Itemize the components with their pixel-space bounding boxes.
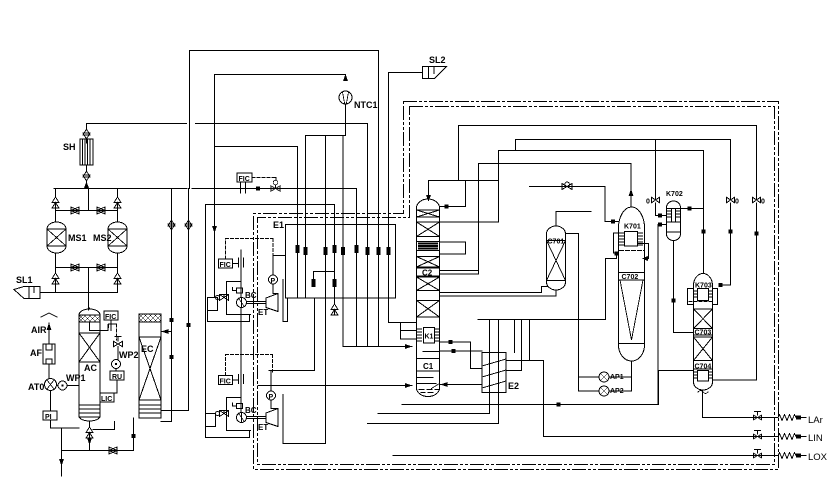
wire exp1 loop (208, 303, 250, 322)
svg-text:0: 0 (761, 199, 765, 206)
gauge P1 circle (269, 275, 278, 284)
pump AP2 (599, 386, 609, 396)
wire C701 right outlet to pumps (566, 234, 579, 392)
wire E2 to column y384.5 (441, 384, 483, 386)
valve cross top right (97, 207, 105, 214)
arrow EC feed (162, 329, 169, 334)
svg-text:LIC: LIC (101, 396, 112, 403)
C702 label band (619, 273, 645, 281)
junction sqs K1 outlets (449, 340, 453, 344)
svg-text:BC: BC (245, 406, 257, 415)
column hatch band (417, 242, 440, 251)
C704 X band (694, 337, 713, 361)
silencer SL1 (14, 287, 40, 299)
arrow into column y347 (405, 344, 412, 349)
svg-text:C1: C1 (423, 362, 434, 371)
wire top right header y150.5 (499, 150, 704, 152)
wire exp1 inlet vertical x241 (240, 250, 242, 298)
arrow C702 vapor up (629, 189, 634, 196)
valve WP2 control (114, 337, 123, 347)
shaft exp2 (247, 417, 267, 419)
compressor BC2 circle (237, 413, 247, 423)
wire AT0 down to PI (51, 391, 80, 429)
arrow AC drain down (87, 438, 92, 445)
wire E1 inner step (314, 272, 335, 280)
heat exchanger E1 (286, 225, 396, 299)
arrow into column top (426, 195, 431, 202)
svg-text:SH: SH (63, 142, 76, 152)
wire column top feed (429, 181, 498, 196)
valve on x171 (168, 216, 175, 234)
svg-text:K702: K702 (666, 191, 683, 198)
valve LOX (754, 450, 762, 458)
C704 bottom box (698, 371, 709, 382)
wire C2 outlet pair (441, 271, 479, 275)
svg-text:MS2: MS2 (93, 233, 112, 243)
wire E1 line x389 SL2 vent (389, 73, 417, 323)
instrument FIC exp1 (219, 259, 233, 268)
wire E1 line x325 (325, 136, 327, 444)
junction sq x171 (170, 318, 174, 322)
valve MS2 top (114, 197, 121, 208)
valve X0 b (713, 126, 761, 381)
valve MS2 bottom (114, 273, 121, 288)
wire vertical x171 (171, 189, 173, 422)
svg-text:MS1: MS1 (68, 233, 87, 243)
wire FIC dashed drop (111, 320, 117, 340)
wire MS bottom cross y267 (56, 253, 118, 310)
pump WP1 (58, 381, 67, 390)
wire SH stubs (86, 124, 88, 189)
vessel C702 with condenser K701 (619, 207, 645, 361)
column band X2 (417, 222, 440, 237)
wire LAr from C704 bottom (703, 390, 779, 418)
valve K701 feed (562, 182, 572, 190)
wire E1 line x356 (356, 189, 358, 347)
junction sq x133 (132, 434, 136, 438)
AC bottom trays (79, 405, 100, 417)
svg-text:SL2: SL2 (429, 55, 446, 65)
wire exp1 inlet pipe (283, 280, 288, 322)
valve MS1 top (52, 197, 59, 208)
svg-text:K701: K701 (624, 224, 641, 231)
wire exp1 frame (227, 282, 251, 315)
wire vertical x189 (189, 51, 191, 189)
wire MS left drop x55 (55, 189, 57, 198)
wire K702 bottom stem x673 (674, 241, 694, 333)
valve on x188 (185, 216, 192, 234)
vessel MS1 (47, 222, 66, 253)
wire FIC1 dashed control (226, 239, 274, 260)
silencer SL2 (423, 67, 447, 79)
arrow into column y385 (405, 383, 412, 388)
valve below E1 on x334 (331, 304, 338, 315)
wire argon feed y293 (441, 287, 557, 297)
compressor BC1 circle (237, 298, 247, 308)
lug K701 left (614, 233, 619, 259)
junction sq K702 inlet1 (658, 214, 662, 218)
svg-text:C2: C2 (422, 269, 433, 278)
valve SH top (83, 125, 90, 143)
wire FIC dashes (252, 178, 276, 183)
valve 0X k702 (652, 140, 667, 216)
wire column top outlet y206 (441, 181, 466, 207)
gauge P2 circle (267, 391, 276, 400)
wire AC bottom out (89, 422, 91, 427)
wire y385 inlet to column (258, 385, 412, 387)
valve MS1 bottom (52, 273, 59, 288)
column sump diagonal (432, 384, 440, 389)
valve X0 a (722, 140, 735, 286)
valve cross bottom right (97, 264, 105, 271)
arrow up below SH (84, 182, 89, 189)
EC bottom bands (139, 405, 161, 413)
wire exp2 inlet vertical x241 (240, 308, 242, 413)
wire NTC1 line y74 (215, 74, 346, 76)
valve cross top left (71, 207, 79, 214)
wire exp2 outlet pipe (283, 395, 326, 444)
wire K1 right outlets (441, 342, 483, 369)
junction sq x171 low (170, 355, 174, 359)
wire MS right drop x117 (117, 189, 119, 198)
svg-text:0: 0 (646, 199, 650, 206)
wire AC dip tube to FIC orifice (90, 323, 117, 331)
arrow AIR up (47, 323, 52, 330)
column band X4 (417, 277, 440, 291)
svg-text:C702: C702 (622, 274, 639, 281)
wire E1 line x343 (342, 136, 344, 347)
wire K701 right loop (638, 244, 649, 259)
NTC1 compressor circle (339, 91, 352, 104)
pump WP2 (112, 360, 121, 369)
orifice on main line (241, 183, 246, 193)
wire long line y404.5 (402, 404, 659, 406)
wire vertical x188 lower (188, 189, 190, 411)
wire exp2 inlet from E1 (269, 298, 315, 371)
AIR intake chevron (41, 313, 57, 317)
squiggle LOX (778, 453, 798, 459)
K701 level dashed (620, 250, 645, 252)
wire E2 through x498 (498, 320, 500, 424)
wire E2 right outlet (506, 361, 544, 437)
wire top right header y125.5 (459, 125, 757, 127)
svg-text:NTC1: NTC1 (354, 100, 378, 110)
wire P1 connections (273, 256, 286, 294)
svg-text:AT0: AT0 (28, 382, 44, 392)
wire below E1 to K1 stubs (401, 323, 417, 340)
svg-text:0: 0 (735, 199, 739, 206)
wire y146 branch (215, 146, 298, 148)
wire LOX long line y455 (393, 455, 778, 457)
wire y404.5 riser branch (658, 371, 660, 405)
wire top line y50 (190, 50, 379, 52)
wire collector y346.5 to column (343, 346, 412, 348)
wire exp2 frame (227, 398, 251, 431)
wire NTC1 down (345, 104, 347, 136)
AC packing X (79, 333, 100, 362)
C703 label band (694, 334, 713, 336)
wire x515 stub (515, 140, 517, 151)
wire LIN long line y436.5 (544, 436, 779, 438)
svg-text:AC: AC (84, 363, 97, 373)
argon column C703/C704 (688, 274, 718, 394)
svg-text:SL1: SL1 (16, 275, 33, 285)
wire K701 condensate header y319.5 (478, 319, 606, 321)
wire pump lines (579, 377, 632, 391)
wire FIC1 to orifice (233, 263, 239, 265)
svg-text:C701: C701 (548, 239, 565, 246)
instrument RU (110, 371, 124, 380)
E2 diagonals (482, 359, 506, 388)
column band X1 (417, 210, 440, 217)
wire y137 branch (306, 135, 346, 137)
C2 label band (417, 268, 440, 276)
instrument FIC top (237, 173, 252, 182)
SH heater vessel (80, 139, 93, 165)
svg-text:FIC: FIC (239, 176, 250, 183)
wire x61 down (61, 428, 63, 476)
turboexpander unit 1 (upper) (208, 239, 288, 322)
wire E1 line x297.5 (297, 147, 299, 299)
C703 X band (694, 309, 713, 329)
svg-text:FIC: FIC (220, 262, 231, 269)
wire LIC to AC (114, 380, 117, 393)
K701 inner box (625, 232, 638, 247)
svg-text:ET: ET (258, 308, 268, 317)
junction sq K701 inlet (611, 220, 615, 224)
wire MS center to AC top (89, 307, 90, 309)
wire long line y423.5 (368, 423, 499, 425)
valve control on main line (273, 180, 277, 184)
junction sq y404.5 (557, 403, 561, 407)
instrument FIC at AC (104, 311, 118, 320)
wire x133 up to EC (133, 418, 135, 451)
wire main air header y188 (54, 188, 357, 190)
condenser K1 (418, 328, 440, 344)
C702 bottom liquid (619, 343, 645, 345)
column tray line (417, 352, 440, 372)
wire FIC2 dashed control (226, 355, 273, 376)
box exp2 left (206, 414, 216, 427)
instrument PI (43, 411, 57, 420)
wire AT0-WP1-AC (57, 385, 80, 387)
wire K702 outlet right (681, 208, 704, 210)
orifice exp2 (239, 375, 244, 384)
junction sq y206 (445, 205, 449, 209)
svg-text:K1: K1 (425, 334, 434, 341)
turboexpander unit 2 (lower) (206, 205, 326, 444)
arrow up NTC1 line end (343, 74, 348, 81)
arrow K701 loop (642, 256, 648, 261)
EC packing X (139, 337, 161, 400)
wire MS top cross y210 (56, 189, 118, 223)
wire x703 drop to K703 (703, 151, 705, 274)
wire K702 inlet2 (658, 224, 667, 226)
valve SH bottom (83, 167, 90, 185)
wire K701 feed line y186.5 (530, 187, 619, 222)
wire AIR to AF (48, 323, 50, 344)
valve exp2 bypass (220, 411, 229, 417)
blower AT0 (45, 379, 57, 391)
wire C702 bottom stem (631, 362, 633, 392)
svg-text:E1: E1 (273, 220, 284, 230)
C704 label band (694, 368, 713, 370)
svg-text:LIN: LIN (808, 433, 823, 444)
turbine ET1 trumpet (266, 294, 278, 312)
subcooler E2 (482, 353, 506, 393)
pump AP1 (599, 372, 609, 382)
column sump lines (417, 378, 437, 384)
K703 condenser box (688, 289, 718, 305)
svg-text:LAr: LAr (808, 415, 823, 426)
vessel MS2 (108, 222, 127, 253)
wire x498 link (498, 151, 500, 223)
shaft exp1 (247, 302, 267, 304)
svg-text:AIR: AIR (31, 325, 47, 335)
wire E2 through x489.5 (489, 320, 491, 414)
wire exp2 loop (206, 427, 250, 438)
wire x658 riser (658, 225, 694, 405)
wire AF to AT0 (48, 364, 50, 378)
squiggle LIN (778, 434, 798, 440)
wire reboiler loop y242-254 (441, 242, 466, 254)
column AC shell (79, 309, 100, 421)
svg-text:WP2: WP2 (119, 350, 139, 360)
AC top hatch band (79, 315, 100, 322)
valve AC bottom (86, 427, 93, 438)
valve cross bottom left (71, 264, 79, 271)
column band X3 (417, 257, 440, 268)
arrow E2 to column (441, 382, 448, 387)
svg-text:WP1: WP1 (66, 373, 86, 383)
arrow x61 down (59, 459, 64, 466)
instrument FIC exp2 (219, 376, 233, 385)
wire WP2 drain loop (93, 422, 115, 430)
valve exp1 bypass (220, 295, 229, 301)
column EC shell (139, 314, 161, 418)
wire EC top feed (161, 331, 172, 333)
orifice exp1 (239, 258, 244, 267)
wire E1 line x305 (305, 136, 307, 299)
wire E2 top right verticals (506, 320, 530, 371)
wire P2 connections (271, 371, 278, 409)
column band X5 (417, 301, 440, 318)
wire C701 top stub (556, 212, 591, 227)
wire exp2 left drop (205, 205, 207, 414)
junction sq x188 (187, 323, 191, 327)
svg-text:PI: PI (45, 414, 52, 421)
cold box boundary inner (dash-dot L-shape) (258, 107, 775, 465)
column sump level dashes (419, 390, 439, 393)
wire SH top header y123.5 (87, 123, 368, 125)
instrument LIC (100, 393, 114, 402)
EC top hatch band (139, 314, 161, 322)
wire AC drain to y450 (62, 443, 134, 451)
main column shell (417, 199, 440, 397)
svg-text:AF: AF (30, 348, 42, 358)
wire K701 condensate to E2 (606, 259, 617, 320)
wire E1 line x378 (378, 51, 380, 347)
wire long line y413.5 (378, 413, 490, 415)
svg-text:E2: E2 (508, 381, 519, 391)
svg-text:EC: EC (141, 344, 154, 354)
svg-text:FIC: FIC (220, 379, 231, 386)
wire y204 branch (206, 204, 335, 206)
wire vertical x214 (214, 75, 216, 298)
wire C702 top feed (630, 164, 632, 208)
squiggle LAr (778, 415, 798, 421)
C702 V packing (620, 280, 643, 340)
wire EC stubs right (161, 411, 189, 422)
wire x458 link (458, 126, 460, 181)
cold box boundary outer (dash-dot L-shape) (254, 102, 779, 470)
motor flag exp1 (233, 288, 243, 294)
wire WP2 line (116, 347, 118, 372)
wire top right header y139 (516, 139, 731, 141)
svg-text:C704: C704 (695, 364, 712, 371)
valve LAr (754, 412, 762, 420)
wire x478 link (478, 164, 480, 275)
svg-text:ET: ET (258, 423, 268, 432)
arrows in E1 (296, 245, 391, 287)
junction sq main line (256, 187, 260, 191)
vessel K702 (666, 191, 683, 241)
valve on y450 (109, 447, 117, 454)
arrow on x214 (212, 226, 217, 233)
wire MS bottom header y292.5 (40, 287, 118, 293)
bottom tilde (698, 391, 708, 394)
wire SL2 feed (389, 72, 423, 74)
box exp1 left (208, 298, 218, 311)
filter AF (43, 344, 55, 364)
vessel C701 (547, 226, 566, 290)
valve LIN (754, 431, 762, 439)
wire FIC2 to orifice (233, 379, 239, 381)
wire column outlet y222 (441, 221, 499, 223)
svg-text:C703: C703 (695, 330, 712, 337)
wire E1 line x367 (367, 124, 369, 347)
turbine ET2 trumpet (266, 409, 278, 427)
wire E1 line x334 (334, 205, 336, 305)
svg-text:LOX: LOX (808, 452, 828, 463)
svg-text:BC: BC (245, 291, 257, 300)
motor flag exp2 (233, 403, 243, 409)
wire top right header y163.5 (479, 163, 632, 165)
